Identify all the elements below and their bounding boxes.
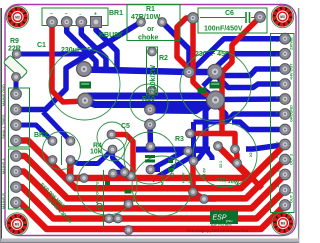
capacitor C5 outline xyxy=(97,122,127,152)
jumper mark near hub xyxy=(198,88,207,94)
wire blue BR2 bottom-right to R4 pad xyxy=(71,150,113,164)
wire red BR1 pad1 down to C1 minus pad xyxy=(52,22,85,102)
wire red fan E xyxy=(16,187,285,219)
wire blue right row2 xyxy=(216,54,286,71)
wire red C5 pad right and down to fan pad xyxy=(114,135,133,175)
svg-text:C5: C5 xyxy=(121,123,130,130)
unplated hole xyxy=(97,203,102,208)
connector BR1 pads xyxy=(47,17,58,28)
window edge left xyxy=(0,8,2,243)
wire blue right row5 to hub V xyxy=(226,114,285,122)
wire red fan C xyxy=(16,156,285,198)
capacitor C1 pads xyxy=(77,62,92,77)
wire red diag to fan2 xyxy=(237,163,262,188)
hole bottom-left xyxy=(6,213,28,235)
fan tap pads xyxy=(66,174,75,183)
svg-text:PCB design (c) 2009 Elliott So: PCB design (c) 2009 Elliott Sound Prod xyxy=(187,229,248,233)
svg-text:X2: X2 xyxy=(249,152,253,157)
wire blue lower diag to pad xyxy=(152,158,194,181)
resistor R9 pads xyxy=(12,50,21,59)
bottom connector pads xyxy=(109,169,118,178)
capacitor C6 pads xyxy=(188,13,199,24)
wire blue BR1 pad2 diag xyxy=(67,22,96,70)
svg-text:KBU8K: KBU8K xyxy=(99,32,123,39)
capacitor bottom-mid outline xyxy=(132,156,192,216)
polarity mark C1 xyxy=(80,82,92,89)
svg-text:~: ~ xyxy=(65,12,68,18)
BR2 center bar xyxy=(61,136,63,165)
svg-text:3: 3 xyxy=(276,68,278,72)
svg-text:M1 OUT: M1 OUT xyxy=(161,170,165,185)
wire red fan F xyxy=(16,203,285,230)
svg-text:7: 7 xyxy=(276,126,278,130)
svg-text:H2 0V: H2 0V xyxy=(188,172,192,183)
polarity mark C2 xyxy=(210,82,222,89)
wire blue hub stub up-left xyxy=(203,74,215,86)
wire blue hub right bus xyxy=(215,96,285,102)
wire blue R10 lower pad down to C3 pad xyxy=(147,125,153,147)
wire blue bus lower C1 minus to hub xyxy=(85,101,210,105)
left connector lower outline xyxy=(9,149,30,209)
capacitor C1 outline xyxy=(49,49,120,120)
svg-text:or: or xyxy=(147,26,154,33)
wire blue R9 bottom pad down to left connector pad1 xyxy=(14,77,19,94)
wire blue R1 left pad diagonal to left connector pad2 xyxy=(16,22,141,110)
wire red fan D xyxy=(16,172,285,209)
bridge BR2 pads xyxy=(48,137,57,146)
svg-text:X2 1: X2 1 xyxy=(219,161,223,168)
wire blue C2 plus right bus xyxy=(215,69,285,76)
wire blue bus upper C1 minus to hub xyxy=(87,93,210,100)
wire blue bus C1 plus to via to C2 plus xyxy=(84,70,215,73)
left connector rotated labels xyxy=(2,84,6,209)
wire blue branch to BR2 top-right pad xyxy=(43,112,71,141)
resistor R9 body xyxy=(3,55,27,79)
resistor R4 pad xyxy=(108,145,117,154)
svg-text:C1: C1 xyxy=(37,42,46,49)
wire blue right row8 under fan xyxy=(246,145,285,150)
wire red C6 left pad left branch to via xyxy=(177,18,193,72)
svg-text:GROUND: GROUND xyxy=(290,105,294,122)
wire blue R1 right pad diag to via xyxy=(162,22,189,72)
svg-text:11: 11 xyxy=(276,184,280,188)
wire blue hub up-right spoke to right row xyxy=(215,74,285,88)
right connector pads xyxy=(280,33,291,44)
svg-text:2: 2 xyxy=(276,53,278,57)
wire red pads drop diag xyxy=(193,164,216,199)
wire blue BR1 pad4 diag xyxy=(96,22,117,71)
svg-text:8: 8 xyxy=(276,141,278,145)
svg-text:12: 12 xyxy=(276,198,280,202)
svg-text:+HV OUT: +HV OUT xyxy=(290,63,294,80)
capacitor bottom-left outline xyxy=(77,155,137,215)
capacitor C6 outline xyxy=(198,8,267,33)
svg-text:22R: 22R xyxy=(8,46,21,53)
svg-text:+: + xyxy=(94,12,97,18)
wire blue hub down leg xyxy=(206,103,213,151)
capacitor C6 symbol xyxy=(200,17,245,19)
svg-text:MAINS A: MAINS A xyxy=(2,158,6,174)
svg-text:5: 5 xyxy=(276,96,278,100)
capacitor C5 pad xyxy=(107,130,116,139)
svg-text:BR2: BR2 xyxy=(34,132,48,139)
wire red pad link xyxy=(235,149,237,163)
bottom rotated labels xyxy=(96,152,254,204)
resistor R10 pads xyxy=(145,104,156,115)
resistor R4 outline xyxy=(102,138,125,161)
svg-text:OUT 2: OUT 2 xyxy=(290,154,294,165)
svg-text:ESP: ESP xyxy=(213,215,227,222)
left connector upper outline xyxy=(9,88,30,147)
wire blue hub lower-right spoke xyxy=(194,104,227,122)
svg-text:R2: R2 xyxy=(159,55,168,62)
svg-text:10k: 10k xyxy=(90,149,102,156)
svg-text:1: 1 xyxy=(276,39,278,43)
wire blue C3 pad right xyxy=(151,167,161,172)
window edge right xyxy=(298,8,300,243)
resistor R1 pads xyxy=(137,18,146,27)
wire blue R9 top pad right xyxy=(17,52,90,57)
connector BR1 outline xyxy=(42,8,108,26)
svg-text:47R/10W: 47R/10W xyxy=(131,14,161,21)
bridge BR2 outline xyxy=(43,132,81,170)
right connector rotated labels xyxy=(276,37,294,203)
svg-text:SMALL TRFO: SMALL TRFO xyxy=(2,115,6,139)
svg-text:~: ~ xyxy=(50,12,53,18)
svg-text:choke: choke xyxy=(138,35,158,42)
wire blue via vertical to pad xyxy=(191,122,196,161)
wire blue right row1 xyxy=(191,39,285,71)
wire blue BR1 pad3 diag xyxy=(81,22,106,71)
resistor R2 outline xyxy=(147,47,158,95)
svg-text:R9: R9 xyxy=(10,38,19,45)
capacitor C2 pads xyxy=(208,64,223,79)
hole bottom-right xyxy=(272,212,294,234)
svg-text:9: 9 xyxy=(276,155,278,159)
bottom connector left edge xyxy=(103,170,105,228)
wire red R3 pad to corner xyxy=(190,134,235,150)
svg-text:230Vac: 230Vac xyxy=(290,37,294,50)
resistor R1 outline xyxy=(127,5,180,41)
capacitor C4 outline xyxy=(193,123,257,187)
hole top-left xyxy=(6,6,28,28)
node pads right-bottom xyxy=(189,157,198,166)
wire blue R10 pad bus to hub xyxy=(150,102,213,111)
window edge bottom band xyxy=(1,239,299,243)
svg-text:OUT 1: OUT 1 xyxy=(290,192,294,203)
svg-text:ESP P05 MINI: ESP P05 MINI xyxy=(211,223,232,227)
svg-text:R1: R1 xyxy=(146,6,155,13)
svg-text:AUX OUTPUT: AUX OUTPUT xyxy=(96,179,100,204)
polarity mark C3 xyxy=(145,155,155,158)
hole top-right xyxy=(271,5,293,27)
wire blue C3 bottom pad diag to bus xyxy=(151,151,211,170)
right connector outline xyxy=(271,34,295,213)
capacitor C3 outline xyxy=(124,132,176,184)
node via xyxy=(184,67,195,78)
svg-text:MAINS GND: MAINS GND xyxy=(2,84,6,106)
svg-text:4: 4 xyxy=(276,82,278,86)
wire red C6 right pad diag down to fan xyxy=(222,17,260,134)
wire blue right row6 diag xyxy=(232,122,285,130)
wire blue left connector pad3 to BR2 top-left xyxy=(16,125,53,141)
svg-text:H1 0V: H1 0V xyxy=(182,172,186,183)
logo green box xyxy=(210,211,238,225)
wire blue pad cross near C5 xyxy=(116,170,125,175)
svg-text:MAINS B: MAINS B xyxy=(2,193,6,209)
resistor R2 pads xyxy=(148,47,157,56)
svg-text:M3 0V: M3 0V xyxy=(203,168,207,179)
wire blue bottom bus xyxy=(136,147,210,153)
svg-text:R10: R10 xyxy=(142,96,155,103)
svg-text:R3: R3 xyxy=(175,136,184,143)
wire red fan B xyxy=(16,141,285,189)
svg-text:BR1: BR1 xyxy=(109,10,123,17)
svg-text:M2 OUT: M2 OUT xyxy=(171,163,175,178)
left connector pads xyxy=(11,89,22,100)
svg-text:10: 10 xyxy=(276,169,280,173)
svg-text:100nF/450V: 100nF/450V xyxy=(204,26,243,33)
svg-text:C6: C6 xyxy=(225,10,234,17)
svg-text:6: 6 xyxy=(276,111,278,115)
wire red fan A from BR2 xyxy=(70,146,250,178)
svg-text:220k/2W: 220k/2W xyxy=(150,65,157,93)
capacitor mid outline xyxy=(130,84,168,122)
capacitor C2 outline xyxy=(180,51,251,122)
wire red C6 left pad down to C2 minus xyxy=(193,18,214,100)
capacitor C3 pads xyxy=(146,142,155,151)
small green boxes bottom connector xyxy=(125,190,132,194)
